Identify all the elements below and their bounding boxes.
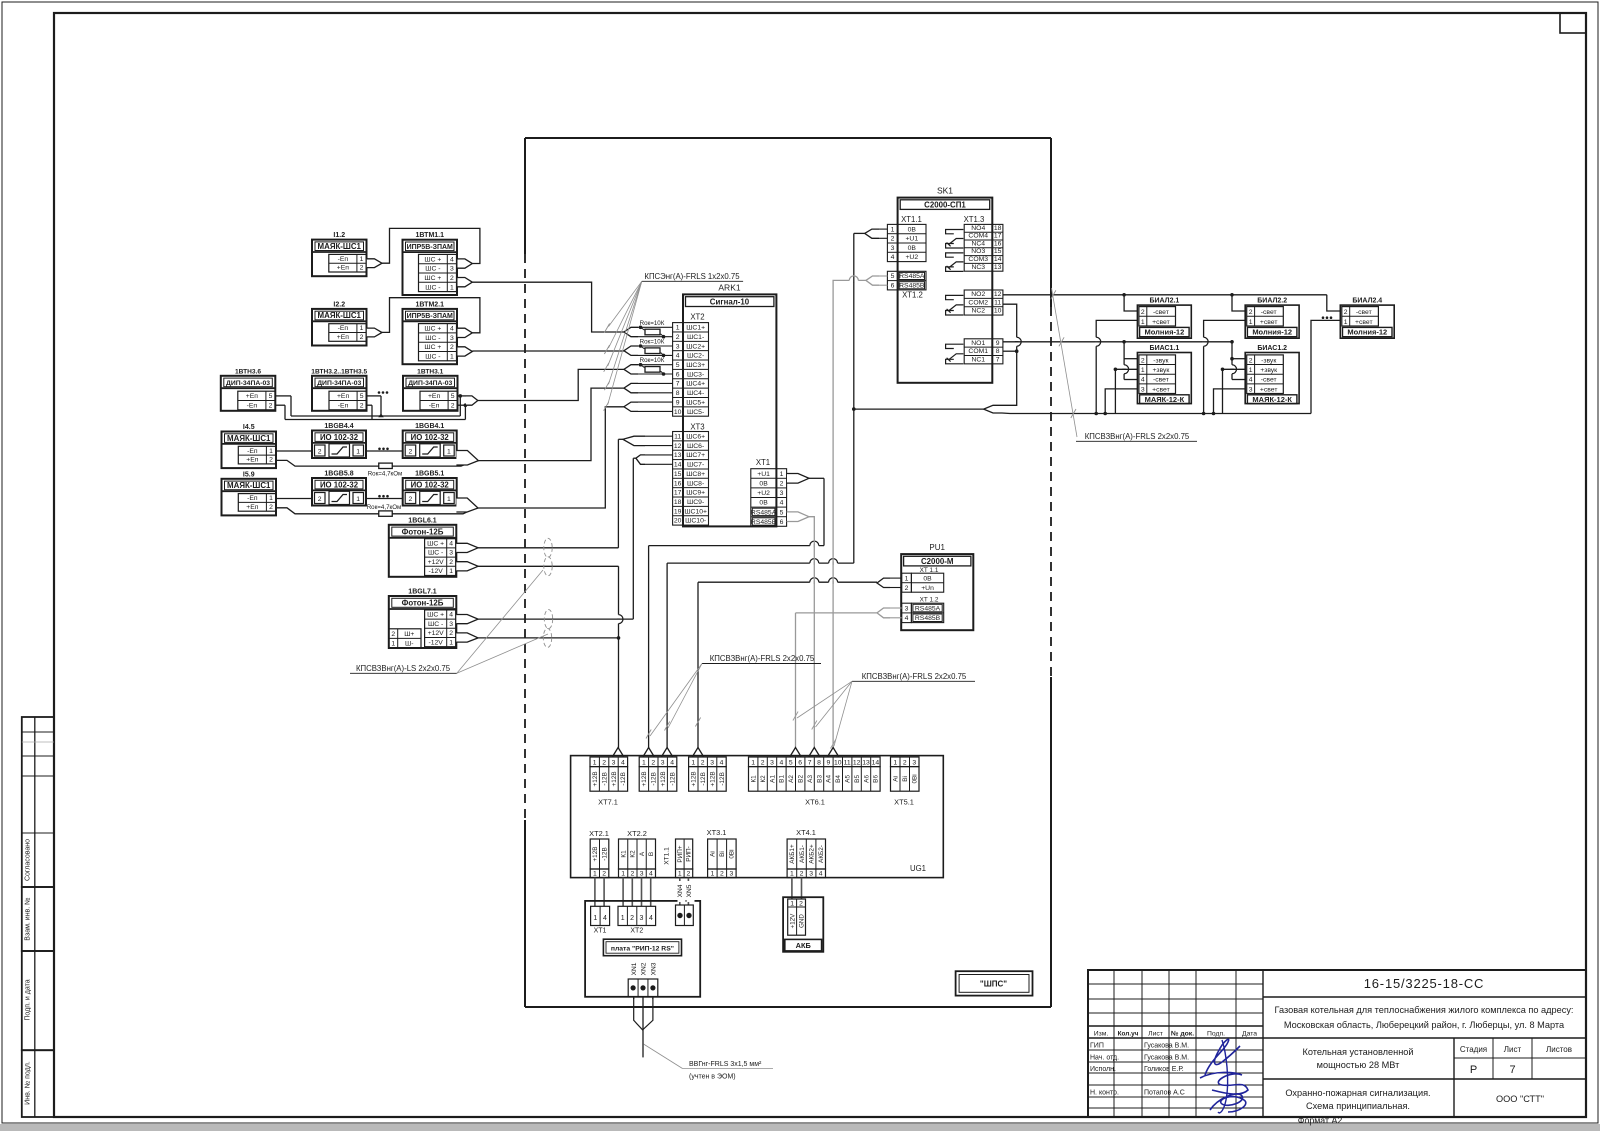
svg-text:3: 3: [905, 606, 909, 613]
svg-text:9: 9: [996, 340, 1000, 347]
svg-text:ШС +: ШС +: [424, 275, 441, 282]
svg-text:3: 3: [729, 870, 733, 877]
svg-text:I1.2: I1.2: [333, 232, 345, 239]
svg-text:2: 2: [360, 334, 364, 341]
svg-text:0В: 0В: [923, 575, 932, 582]
svg-text:ШС +: ШС +: [424, 326, 441, 333]
svg-text:-12В: -12В: [620, 772, 627, 786]
svg-text:10: 10: [994, 308, 1002, 315]
svg-text:+Еп: +Еп: [337, 334, 350, 341]
svg-text:+свет: +свет: [1355, 319, 1373, 326]
svg-text:А: А: [639, 851, 646, 856]
svg-text:РИП-: РИП-: [686, 846, 693, 862]
svg-text:COM2: COM2: [968, 299, 988, 306]
svg-text:1: 1: [593, 915, 597, 922]
svg-text:2: 2: [269, 403, 273, 410]
svg-text:XN3: XN3: [651, 962, 658, 975]
svg-text:13: 13: [674, 452, 682, 459]
svg-text:2: 2: [450, 344, 454, 351]
svg-text:+12В: +12В: [660, 771, 667, 786]
svg-text:1: 1: [269, 495, 273, 502]
svg-text:2: 2: [630, 870, 634, 877]
svg-text:-12В: -12В: [601, 772, 608, 786]
svg-text:4: 4: [891, 254, 895, 261]
svg-text:ХТ1.1: ХТ1.1: [664, 847, 671, 865]
svg-text:16: 16: [674, 480, 682, 487]
svg-text:-свет: -свет: [1356, 309, 1372, 316]
svg-text:4: 4: [780, 500, 784, 507]
svg-text:13: 13: [862, 759, 870, 766]
svg-text:5: 5: [891, 273, 895, 280]
svg-text:ХТ5.1: ХТ5.1: [894, 798, 914, 807]
svg-text:2: 2: [602, 759, 606, 766]
svg-text:ШС5-: ШС5-: [687, 409, 704, 416]
svg-text:11: 11: [674, 433, 681, 440]
svg-text:1: 1: [678, 870, 682, 877]
svg-text:КПСВЗВнг(А)-FRLS 2х2х0.75: КПСВЗВнг(А)-FRLS 2х2х0.75: [1085, 432, 1190, 441]
svg-text:1: 1: [1249, 367, 1253, 374]
svg-text:ХТ1.2: ХТ1.2: [902, 290, 923, 299]
svg-text:Фотон-12Б: Фотон-12Б: [402, 599, 444, 608]
svg-text:В3: В3: [816, 775, 823, 783]
svg-text:6: 6: [891, 283, 895, 290]
svg-text:1: 1: [790, 870, 794, 877]
svg-text:ШС2+: ШС2+: [686, 343, 705, 350]
svg-text:ХТ2.1: ХТ2.1: [589, 829, 609, 838]
svg-text:ООО "СТТ": ООО "СТТ": [1496, 1094, 1544, 1104]
svg-text:ШС9+: ШС9+: [686, 490, 705, 497]
svg-text:2: 2: [1249, 309, 1253, 316]
svg-text:ИПР5В-ЗПАМ: ИПР5В-ЗПАМ: [407, 244, 453, 251]
svg-text:В1: В1: [779, 775, 786, 783]
svg-text:2: 2: [676, 334, 680, 341]
svg-text:ХТ1.1: ХТ1.1: [901, 215, 922, 224]
svg-text:2: 2: [449, 630, 453, 637]
svg-text:+Еп: +Еп: [246, 457, 259, 464]
svg-text:-12В: -12В: [669, 772, 676, 786]
svg-text:АКБ2+: АКБ2+: [808, 844, 815, 864]
svg-text:+Еп: +Еп: [246, 393, 259, 400]
svg-text:К1: К1: [620, 850, 627, 858]
svg-text:1: 1: [710, 870, 714, 877]
svg-text:+12В: +12В: [709, 771, 716, 786]
svg-text:Н. контр.: Н. контр.: [1090, 1090, 1119, 1097]
svg-text:-12V: -12V: [428, 639, 443, 646]
svg-text:-12В: -12В: [601, 847, 608, 861]
svg-text:Молния-12: Молния-12: [1252, 328, 1292, 337]
svg-text:1BGL6.1: 1BGL6.1: [408, 517, 437, 524]
svg-text:I5.9: I5.9: [243, 471, 255, 478]
svg-text:БИАС1.2: БИАС1.2: [1257, 345, 1287, 352]
svg-text:Дата: Дата: [1242, 1031, 1257, 1038]
svg-text:2: 2: [1249, 357, 1253, 364]
svg-text:1: 1: [447, 449, 451, 456]
svg-text:2: 2: [449, 559, 453, 566]
svg-text:16-15/3225-18-СС: 16-15/3225-18-СС: [1364, 976, 1484, 991]
svg-text:БИАЛ2.4: БИАЛ2.4: [1352, 298, 1382, 305]
svg-text:ШС +: ШС +: [424, 256, 441, 263]
svg-text:А2: А2: [788, 775, 795, 783]
svg-text:14: 14: [994, 256, 1002, 263]
svg-text:+Еп: +Еп: [428, 393, 441, 400]
svg-text:Подп. и дата: Подп. и дата: [25, 979, 32, 1020]
svg-text:КПСВЗВнг(А)-FRLS 2х2х0.75: КПСВЗВнг(А)-FRLS 2х2х0.75: [710, 654, 815, 663]
svg-text:-звук: -звук: [1153, 357, 1168, 364]
svg-text:10: 10: [834, 759, 842, 766]
svg-text:4: 4: [676, 353, 680, 360]
svg-text:К2: К2: [630, 850, 637, 858]
svg-text:0Вi: 0Вi: [912, 774, 919, 783]
svg-text:4: 4: [449, 541, 453, 548]
svg-text:0В: 0В: [759, 481, 768, 488]
svg-text:ШС6-: ШС6-: [687, 443, 704, 450]
svg-text:ШС10+: ШС10+: [684, 508, 707, 515]
svg-text:Молния-12: Молния-12: [1145, 328, 1185, 337]
svg-text:PU1: PU1: [929, 543, 945, 552]
svg-text:Гусакова В.М.: Гусакова В.М.: [1144, 1043, 1189, 1050]
svg-text:+звук: +звук: [1260, 367, 1277, 374]
svg-text:ШС7-: ШС7-: [687, 462, 704, 469]
svg-text:1: 1: [360, 256, 364, 263]
svg-text:С2000-СП1: С2000-СП1: [924, 201, 966, 210]
svg-text:1BGB5.1: 1BGB5.1: [415, 471, 444, 478]
svg-text:5: 5: [780, 509, 784, 516]
svg-text:ШС2-: ШС2-: [687, 353, 704, 360]
svg-text:ХТ1: ХТ1: [756, 458, 770, 467]
svg-text:В5: В5: [854, 775, 861, 783]
svg-text:ГИП: ГИП: [1090, 1043, 1104, 1050]
svg-text:МАЯК-12-К: МАЯК-12-К: [1252, 395, 1292, 404]
svg-text:ХТ2.2: ХТ2.2: [627, 829, 647, 838]
svg-text:Лист: Лист: [1148, 1031, 1163, 1038]
svg-text:3: 3: [640, 870, 644, 877]
svg-text:ХТ7.1: ХТ7.1: [598, 798, 618, 807]
svg-text:Аi: Аi: [893, 776, 900, 782]
svg-text:ARK1: ARK1: [718, 283, 740, 293]
svg-text:COM1: COM1: [968, 348, 988, 355]
svg-text:1: 1: [1141, 367, 1145, 374]
svg-text:5: 5: [789, 759, 793, 766]
svg-text:NC2: NC2: [971, 308, 985, 315]
svg-text:ДИП-34ПА-03: ДИП-34ПА-03: [408, 380, 452, 387]
svg-text:ШС -: ШС -: [425, 354, 440, 361]
svg-text:1: 1: [780, 471, 784, 478]
svg-text:1: 1: [356, 449, 360, 456]
svg-text:АКБ2-: АКБ2-: [818, 845, 825, 863]
svg-text:COM3: COM3: [968, 256, 988, 263]
svg-text:1BGB4.1: 1BGB4.1: [415, 423, 444, 430]
svg-text:ШС +: ШС +: [424, 344, 441, 351]
svg-text:+12В: +12В: [641, 771, 648, 786]
svg-text:1ВТМ1.1: 1ВТМ1.1: [415, 232, 444, 239]
svg-text:1ВТН3.6: 1ВТН3.6: [235, 368, 261, 375]
svg-text:15: 15: [994, 248, 1002, 255]
svg-text:МАЯК-ШС1: МАЯК-ШС1: [227, 434, 271, 443]
svg-text:-Еп: -Еп: [338, 256, 349, 263]
svg-text:-12В: -12В: [719, 772, 726, 786]
svg-text:+свет: +свет: [1152, 319, 1170, 326]
svg-text:1: 1: [269, 448, 273, 455]
svg-text:17: 17: [994, 233, 1002, 240]
svg-text:1: 1: [691, 759, 695, 766]
svg-text:-Еп: -Еп: [247, 495, 258, 502]
svg-text:ДИП-34ПА-03: ДИП-34ПА-03: [317, 380, 361, 387]
svg-text:Охранно-пожарная сигнализация.: Охранно-пожарная сигнализация.: [1285, 1088, 1430, 1098]
svg-text:2: 2: [391, 631, 395, 638]
svg-text:Ш+: Ш+: [404, 631, 414, 638]
svg-text:-12В: -12В: [700, 772, 707, 786]
svg-text:9: 9: [827, 759, 831, 766]
svg-text:МАЯК-ШС1: МАЯК-ШС1: [318, 311, 362, 320]
svg-text:1BGB4.4: 1BGB4.4: [324, 423, 353, 430]
svg-text:МАЯК-ШС1: МАЯК-ШС1: [227, 481, 271, 490]
svg-text:Подп.: Подп.: [1207, 1031, 1225, 1038]
svg-text:ХТ6.1: ХТ6.1: [805, 798, 825, 807]
svg-text:1: 1: [449, 639, 453, 646]
svg-text:4: 4: [1249, 377, 1253, 384]
svg-text:+свет: +свет: [1152, 386, 1170, 393]
svg-text:1: 1: [676, 325, 680, 332]
svg-text:4: 4: [1141, 377, 1145, 384]
svg-text:Сигнал-10: Сигнал-10: [710, 298, 750, 307]
svg-text:А5: А5: [845, 775, 852, 783]
svg-text:БИАС1.1: БИАС1.1: [1150, 345, 1180, 352]
svg-text:Инв. № подл.: Инв. № подл.: [25, 1061, 32, 1105]
svg-text:3: 3: [1141, 386, 1145, 393]
svg-text:Газовая котельная для теплосна: Газовая котельная для теплоснабжения жил…: [1275, 1005, 1574, 1015]
svg-text:1: 1: [356, 496, 360, 503]
svg-text:Потапов А.С: Потапов А.С: [1144, 1090, 1185, 1097]
svg-text:XN1: XN1: [631, 962, 638, 975]
svg-text:МАЯК-ШС1: МАЯК-ШС1: [318, 242, 362, 251]
svg-text:А4: А4: [826, 775, 833, 783]
svg-text:2: 2: [602, 870, 606, 877]
svg-text:ШС -: ШС -: [425, 266, 440, 273]
svg-text:10: 10: [674, 409, 682, 416]
svg-text:+12В: +12В: [611, 771, 618, 786]
svg-text:2: 2: [269, 504, 273, 511]
svg-text:1ВТН3.2..1ВТН3.5: 1ВТН3.2..1ВТН3.5: [311, 368, 367, 375]
svg-text:Согласовано: Согласовано: [25, 839, 32, 881]
svg-text:2: 2: [761, 759, 765, 766]
svg-text:ДИП-34ПА-03: ДИП-34ПА-03: [226, 380, 270, 387]
svg-text:1: 1: [905, 575, 909, 582]
svg-text:ШС3-: ШС3-: [687, 371, 704, 378]
svg-text:БИАЛ2.2: БИАЛ2.2: [1257, 298, 1287, 305]
svg-text:3: 3: [710, 759, 714, 766]
svg-text:ИО 102-32: ИО 102-32: [320, 433, 359, 442]
svg-text:0Вi: 0Вi: [729, 849, 736, 858]
svg-text:ХТ2: ХТ2: [630, 928, 643, 935]
svg-text:18: 18: [674, 499, 682, 506]
svg-text:РИП+: РИП+: [677, 845, 684, 862]
svg-text:+Un: +Un: [921, 585, 934, 592]
svg-text:NO3: NO3: [971, 248, 985, 255]
svg-text:COM4: COM4: [968, 233, 988, 240]
svg-text:18: 18: [994, 225, 1002, 232]
svg-text:2: 2: [360, 403, 364, 410]
svg-text:Ш-: Ш-: [405, 641, 414, 648]
svg-text:МАЯК-12-К: МАЯК-12-К: [1145, 395, 1185, 404]
svg-text:1: 1: [447, 496, 451, 503]
svg-text:ШС1-: ШС1-: [687, 334, 704, 341]
svg-text:ШС8+: ШС8+: [686, 471, 705, 478]
svg-text:1: 1: [450, 284, 454, 291]
svg-text:3: 3: [912, 759, 916, 766]
svg-text:1ВТМ2.1: 1ВТМ2.1: [415, 301, 444, 308]
svg-text:ШС9-: ШС9-: [687, 499, 704, 506]
svg-text:2: 2: [450, 275, 454, 282]
svg-text:1: 1: [621, 870, 625, 877]
svg-text:2: 2: [720, 870, 724, 877]
svg-text:0В: 0В: [908, 226, 917, 233]
svg-text:Молния-12: Молния-12: [1347, 328, 1387, 337]
svg-text:2: 2: [318, 496, 322, 503]
svg-text:-свет: -свет: [1153, 309, 1169, 316]
svg-text:+U2: +U2: [905, 254, 918, 261]
svg-text:5: 5: [360, 393, 364, 400]
svg-text:1: 1: [360, 325, 364, 332]
svg-text:6: 6: [798, 759, 802, 766]
svg-text:XN5: XN5: [686, 884, 693, 897]
svg-text:АКБ: АКБ: [796, 941, 812, 950]
svg-text:16: 16: [994, 240, 1002, 247]
svg-text:3: 3: [676, 343, 680, 350]
svg-text:+звук: +звук: [1152, 367, 1169, 374]
svg-text:(учтен в ЭОМ): (учтен в ЭОМ): [689, 1074, 736, 1081]
svg-text:ШС3+: ШС3+: [686, 362, 705, 369]
svg-text:I2.2: I2.2: [333, 301, 345, 308]
svg-text:1: 1: [751, 759, 755, 766]
svg-text:3: 3: [450, 335, 454, 342]
svg-text:ИО 102-32: ИО 102-32: [411, 480, 450, 489]
svg-text:ИО 102-32: ИО 102-32: [411, 433, 450, 442]
svg-text:GND: GND: [798, 914, 805, 928]
svg-text:NC4: NC4: [971, 240, 985, 247]
svg-text:Rок=4,7кОм: Rок=4,7кОм: [368, 470, 403, 477]
svg-text:+U1: +U1: [905, 236, 918, 243]
svg-text:8: 8: [676, 390, 680, 397]
svg-text:ШС1+: ШС1+: [686, 325, 705, 332]
svg-text:I4.5: I4.5: [243, 424, 255, 431]
svg-text:АКБ1+: АКБ1+: [789, 844, 796, 864]
svg-text:7: 7: [996, 356, 1000, 363]
svg-text:NO4: NO4: [971, 225, 985, 232]
svg-text:3: 3: [891, 245, 895, 252]
svg-text:1BGB5.8: 1BGB5.8: [324, 471, 353, 478]
svg-text:КПСВЗВнг(А)-LS 2х2х0.75: КПСВЗВнг(А)-LS 2х2х0.75: [356, 664, 451, 673]
svg-text:1: 1: [1141, 319, 1145, 326]
svg-text:2: 2: [1141, 309, 1145, 316]
svg-text:4: 4: [603, 915, 607, 922]
svg-text:7: 7: [1509, 1064, 1515, 1076]
svg-text:-Еп: -Еп: [338, 403, 349, 410]
svg-text:3: 3: [449, 550, 453, 557]
svg-text:Московская область, Люберецкий: Московская область, Люберецкий район, г.…: [1284, 1020, 1565, 1030]
svg-text:3: 3: [1249, 386, 1253, 393]
svg-text:2: 2: [701, 759, 705, 766]
svg-text:Котельная установленной: Котельная установленной: [1302, 1047, 1413, 1057]
svg-text:2: 2: [451, 403, 455, 410]
svg-text:1: 1: [593, 870, 597, 877]
svg-text:Исполн.: Исполн.: [1090, 1066, 1116, 1073]
svg-text:ШС +: ШС +: [427, 541, 444, 548]
svg-text:SK1: SK1: [937, 186, 953, 196]
svg-text:ШС -: ШС -: [425, 284, 440, 291]
svg-text:2: 2: [269, 457, 273, 464]
svg-text:А1: А1: [769, 775, 776, 783]
svg-text:-Еп: -Еп: [429, 403, 440, 410]
svg-text:2: 2: [409, 496, 413, 503]
svg-text:Фотон-12Б: Фотон-12Б: [402, 527, 444, 536]
svg-text:2: 2: [891, 236, 895, 243]
svg-text:6: 6: [676, 371, 680, 378]
svg-text:Изм.: Изм.: [1094, 1031, 1109, 1038]
svg-text:Лист: Лист: [1504, 1045, 1522, 1054]
svg-text:NC1: NC1: [971, 356, 985, 363]
svg-text:11: 11: [844, 759, 851, 766]
svg-text:ШС10-: ШС10-: [685, 518, 706, 525]
svg-text:-свет: -свет: [1261, 377, 1277, 384]
svg-text:5: 5: [676, 362, 680, 369]
svg-text:ХТ 1.2: ХТ 1.2: [920, 596, 939, 603]
svg-text:1: 1: [450, 354, 454, 361]
svg-text:АКБ1-: АКБ1-: [799, 845, 806, 863]
svg-text:+свет: +свет: [1260, 386, 1278, 393]
svg-text:8: 8: [996, 348, 1000, 355]
svg-text:1: 1: [1344, 319, 1348, 326]
svg-text:8: 8: [817, 759, 821, 766]
svg-text:4: 4: [780, 759, 784, 766]
svg-text:UG1: UG1: [910, 864, 926, 873]
svg-text:0В: 0В: [759, 500, 768, 507]
svg-text:1: 1: [449, 568, 453, 575]
svg-text:В: В: [648, 852, 655, 856]
svg-text:Схема принципиальная.: Схема принципиальная.: [1306, 1101, 1410, 1111]
svg-text:+12В: +12В: [592, 771, 599, 786]
svg-text:20: 20: [674, 518, 682, 525]
svg-text:-Еп: -Еп: [247, 448, 258, 455]
svg-text:3: 3: [612, 759, 616, 766]
svg-text:1: 1: [893, 759, 897, 766]
svg-text:В2: В2: [798, 775, 805, 783]
svg-text:-Еп: -Еп: [338, 325, 349, 332]
svg-text:№ док.: № док.: [1171, 1031, 1194, 1038]
svg-text:ШС4+: ШС4+: [686, 381, 705, 388]
svg-text:4: 4: [649, 870, 653, 877]
svg-text:К2: К2: [760, 775, 767, 783]
svg-text:4: 4: [621, 759, 625, 766]
svg-text:2: 2: [905, 585, 909, 592]
svg-text:ШС -: ШС -: [428, 621, 443, 628]
svg-text:ШС +: ШС +: [427, 612, 444, 619]
svg-text:Rок=4,7кОм: Rок=4,7кОм: [367, 504, 402, 511]
svg-text:2: 2: [360, 265, 364, 272]
svg-text:+Еп: +Еп: [337, 393, 350, 400]
svg-text:1: 1: [891, 226, 895, 233]
svg-text:4: 4: [450, 326, 454, 333]
svg-text:3: 3: [770, 759, 774, 766]
svg-text:плата "РИП-12 RS": плата "РИП-12 RS": [611, 945, 674, 952]
svg-text:1: 1: [790, 900, 794, 907]
svg-text:Rок=10К: Rок=10К: [640, 320, 665, 327]
svg-text:2: 2: [799, 900, 803, 907]
svg-text:"ШПС": "ШПС": [980, 980, 1007, 989]
svg-text:Нач. отд.: Нач. отд.: [1090, 1055, 1119, 1062]
svg-text:ШС5+: ШС5+: [686, 399, 705, 406]
svg-text:ИПР5В-ЗПАМ: ИПР5В-ЗПАМ: [407, 313, 453, 320]
svg-text:12: 12: [674, 443, 682, 450]
